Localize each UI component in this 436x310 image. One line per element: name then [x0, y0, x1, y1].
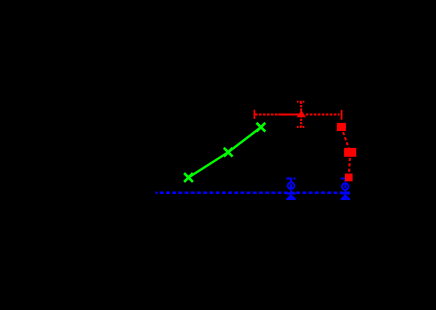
red square S2 (two overlapping points) — [344, 148, 356, 157]
blue point B2 top cap — [341, 178, 350, 180]
blue triangle marker B2 — [341, 194, 349, 198]
blue point B1 mid cap — [286, 192, 295, 194]
blue circle marker B1 — [288, 182, 295, 189]
red xy-errorbar point: horizontal bar left cap — [253, 110, 255, 119]
red horizontal error bar dotted right part — [306, 113, 340, 115]
blue circle marker B2 — [342, 183, 349, 190]
green X marker G3 — [257, 123, 266, 132]
red square S1 — [337, 123, 346, 131]
red square S3 — [345, 174, 353, 182]
red squares connecting dashed line — [341, 127, 350, 177]
blue point B2 mid cap — [341, 192, 350, 194]
red vertical bar top cap (dashed) — [297, 101, 305, 103]
blue point B1 error bar (vertical dashed) — [290, 178, 292, 200]
green X marker G2 — [224, 148, 233, 157]
blue point B1 bottom cap — [286, 198, 295, 200]
blue triangle marker B1 — [287, 194, 295, 198]
red horizontal bar right cap — [341, 110, 343, 120]
red horizontal error bar dotted left part — [255, 113, 278, 115]
green line — [189, 127, 261, 177]
blue baseline (dashed horizontal line y=192.8) — [156, 192, 353, 195]
red vertical error bar dotted — [300, 102, 302, 127]
red horizontal solid segment — [278, 113, 301, 115]
green X marker G1 — [184, 173, 193, 182]
blue point B2 error bar (vertical dashed) — [344, 178, 346, 200]
blue point B1 top cap — [286, 178, 295, 180]
red vertical bar bottom cap (dashed) — [297, 126, 305, 128]
blue point B2 bottom cap — [341, 198, 350, 200]
red triangle marker — [297, 110, 306, 117]
